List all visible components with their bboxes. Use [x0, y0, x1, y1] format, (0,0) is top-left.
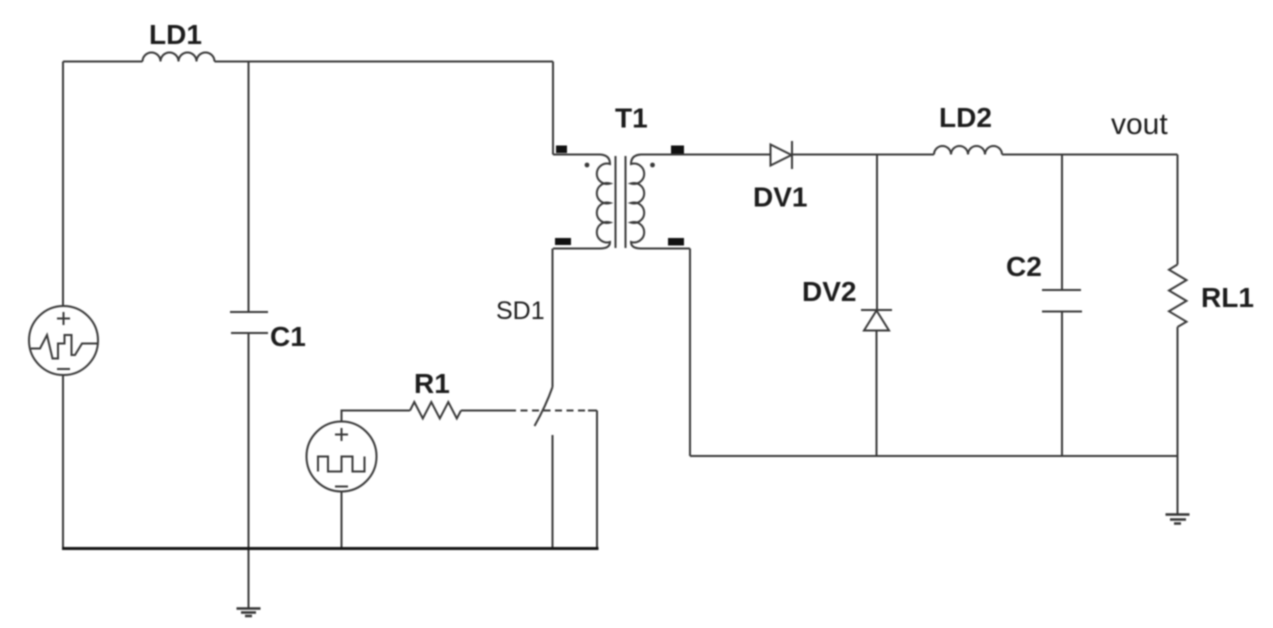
transformer T1 core	[616, 156, 626, 248]
svg-text:C1: C1	[270, 321, 306, 352]
wire R1 to switch control	[461, 410, 509, 412]
pulse source V2 circle	[307, 422, 377, 492]
V1 waveform	[31, 335, 97, 359]
wire C2 bottom	[1061, 312, 1063, 457]
wire top rail left	[63, 61, 143, 63]
svg-text:C2: C2	[1006, 251, 1042, 282]
wire top rail right of LD1	[215, 61, 554, 63]
capacitor C2	[1042, 290, 1082, 312]
V2 minus sign	[335, 486, 348, 488]
svg-text:SD1: SD1	[496, 297, 545, 325]
svg-text:LD2: LD2	[939, 102, 992, 133]
ground rail bottom	[62, 547, 599, 550]
wire secondary top to diode DV1	[687, 154, 771, 156]
wire RL1 bottom to rail	[1177, 327, 1179, 456]
transformer T1 primary dot	[585, 163, 590, 168]
diode DV2	[861, 310, 892, 331]
wire C1 branch top	[248, 62, 250, 313]
switch SD1 bottom post	[552, 435, 554, 549]
wire V2 top to R1 level	[342, 411, 411, 422]
switch SD1 dashed control line	[509, 410, 589, 412]
switch control corner wire	[588, 411, 597, 549]
wire C1 bottom through rail to ground	[248, 333, 250, 608]
wire drop to transformer primary	[552, 62, 554, 155]
wire DV2 branch top	[876, 155, 878, 311]
voltage source V1 circle	[29, 306, 98, 375]
inductor LD1	[143, 53, 215, 62]
wire left vertical top (source V1 top to top rail)	[62, 62, 64, 307]
resistor RL1	[1169, 265, 1187, 328]
wire LD2 to vout corner	[1002, 154, 1178, 156]
wire vout drop to RL1	[1177, 155, 1179, 265]
wire transformer secondary bottom drop	[689, 249, 691, 457]
wire DV2 bottom	[876, 331, 878, 457]
wire V2 bottom to ground rail	[341, 492, 343, 549]
transformer T1 terminal pads	[555, 146, 684, 246]
svg-text:R1: R1	[414, 368, 450, 399]
inductor LD2	[934, 146, 1002, 155]
wire C2 branch top	[1061, 155, 1063, 291]
wire secondary bottom rail	[690, 455, 1178, 457]
V2 plus sign	[335, 428, 348, 441]
V2 square wave	[318, 457, 365, 472]
wire V1 bottom to ground rail	[62, 375, 64, 549]
capacitor C1	[230, 312, 268, 333]
V1 plus sign	[57, 312, 70, 325]
svg-text:T1: T1	[615, 103, 648, 134]
wire DV1 to LD2	[792, 154, 934, 156]
switch SD1 top post	[552, 249, 554, 388]
svg-text:DV1: DV1	[753, 182, 807, 213]
transformer T1 primary winding	[553, 155, 610, 249]
transformer T1 secondary dot	[650, 163, 655, 168]
svg-text:vout: vout	[1111, 108, 1168, 141]
resistor R1	[410, 402, 461, 419]
ground (bottom left)	[237, 609, 261, 617]
V1 minus sign	[57, 368, 70, 370]
svg-text:LD1: LD1	[149, 19, 202, 50]
switch SD1 blade	[535, 387, 553, 426]
diode DV1	[771, 141, 793, 169]
svg-text:RL1: RL1	[1201, 282, 1254, 313]
transformer T1 secondary winding	[631, 155, 690, 249]
wire RL1 below rail to ground	[1177, 456, 1179, 514]
ground (right)	[1166, 515, 1190, 524]
svg-text:DV2: DV2	[802, 276, 856, 307]
